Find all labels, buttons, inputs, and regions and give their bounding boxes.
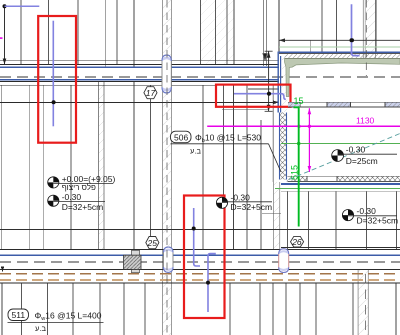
cyan dashed diagonal [289, 134, 400, 180]
rebar T2 [234, 92, 286, 100]
wall crosshatch band x281-287.5 y112-179.5 [280, 113, 287, 180]
svg-text:515: 515 [290, 165, 300, 180]
svg-text:ב.ע: ב.ע [35, 324, 46, 333]
hexagon 25 [146, 237, 159, 249]
level marker 2 [48, 192, 105, 212]
dimension vertical x268.6 [265, 51, 273, 111]
svg-text:ב.ע: ב.ע [190, 147, 201, 156]
red rect R1 [38, 16, 76, 143]
svg-text:506: 506 [174, 132, 188, 142]
svg-text:-0.30: -0.30 [346, 145, 366, 155]
level marker 3 [216, 192, 272, 212]
upper-right slab edge strip y102-107 [288, 102, 400, 107]
mid-right horizontals [0, 213, 400, 247]
svg-text:פלס ריצוף: פלס ריצוף [62, 183, 96, 192]
horizontal line y102.3 with arrow [0, 89, 279, 109]
wall hatch: column strip x163-171 full height [163, 0, 172, 335]
hatch right of wall x281.5-287 (y53-112) [282, 53, 287, 112]
hatched column section block at x123-141 [124, 250, 142, 272]
wall hatch: bottom-right column x359-368 [358, 270, 368, 335]
svg-text:17: 17 [146, 88, 156, 98]
faint wall hatch x200-234 top [201, 0, 235, 64]
label 506 [171, 131, 262, 155]
level marker 4 [342, 206, 398, 226]
right wall corner vertical blue [278, 52, 280, 113]
svg-text:-0.30: -0.30 [231, 192, 251, 202]
svg-text:D=32+5cm: D=32+5cm [231, 202, 273, 212]
leader 506 [171, 144, 282, 172]
svg-text:26: 26 [291, 237, 302, 247]
grey-green wedge polygon [285, 59, 400, 97]
svg-text:25: 25 [147, 238, 158, 248]
top-left detail: dot, blue tie line [3, 4, 40, 64]
hexagon 17 [144, 87, 157, 99]
bottom beam lines [0, 250, 400, 283]
hexagon 26 [291, 236, 304, 247]
red rect R2 [216, 85, 291, 107]
top right slab edge [279, 47, 400, 58]
rebar TR [350, 4, 360, 55]
svg-text:-0.30: -0.30 [62, 192, 82, 202]
bottom-right slab band y176-181 [275, 176, 400, 191]
rebar T1 [52, 21, 56, 127]
svg-text:511: 511 [12, 310, 26, 320]
wall hatch: top-right column x363-374 [363, 0, 375, 59]
column capital 2 (bottom beam) [164, 247, 174, 272]
magenta dimension [0, 37, 400, 172]
svg-text:15: 15 [294, 96, 304, 106]
red rect R3 [184, 196, 225, 319]
column capital 1 (top beam) [162, 55, 171, 93]
grid verticals top band [5, 0, 377, 67]
rebar B2 [206, 254, 216, 312]
svg-text:1130: 1130 [356, 116, 375, 126]
wall strip x273.5-279.7 (y182-249) [273, 85, 280, 249]
svg-text:D=32+5cm: D=32+5cm [62, 202, 104, 212]
green lines [281, 96, 400, 227]
line y40.3 with left arrow and dot [279, 38, 400, 42]
svg-text:D=25cm: D=25cm [346, 156, 378, 166]
column centerlines [167, 0, 366, 335]
column capital 3 (hex26 column) [279, 249, 289, 273]
level marker 5 [332, 145, 397, 167]
label 511 [8, 309, 104, 333]
svg-text:-0.30: -0.30 [357, 206, 377, 216]
svg-text:Φw16 @15 L=400: Φw16 @15 L=400 [35, 310, 102, 322]
top beam lines [0, 61, 400, 85]
svg-text:Φb10 @15 L=530: Φb10 @15 L=530 [195, 133, 261, 145]
grid verticals middle band [2, 82, 397, 250]
level marker 1 [48, 174, 116, 192]
svg-text:D=32+5cm: D=32+5cm [357, 216, 399, 226]
wall: left wall x98.5-104 between beams [99, 82, 105, 250]
grid verticals bottom band [2, 283, 396, 335]
rebar B1 [192, 208, 200, 266]
